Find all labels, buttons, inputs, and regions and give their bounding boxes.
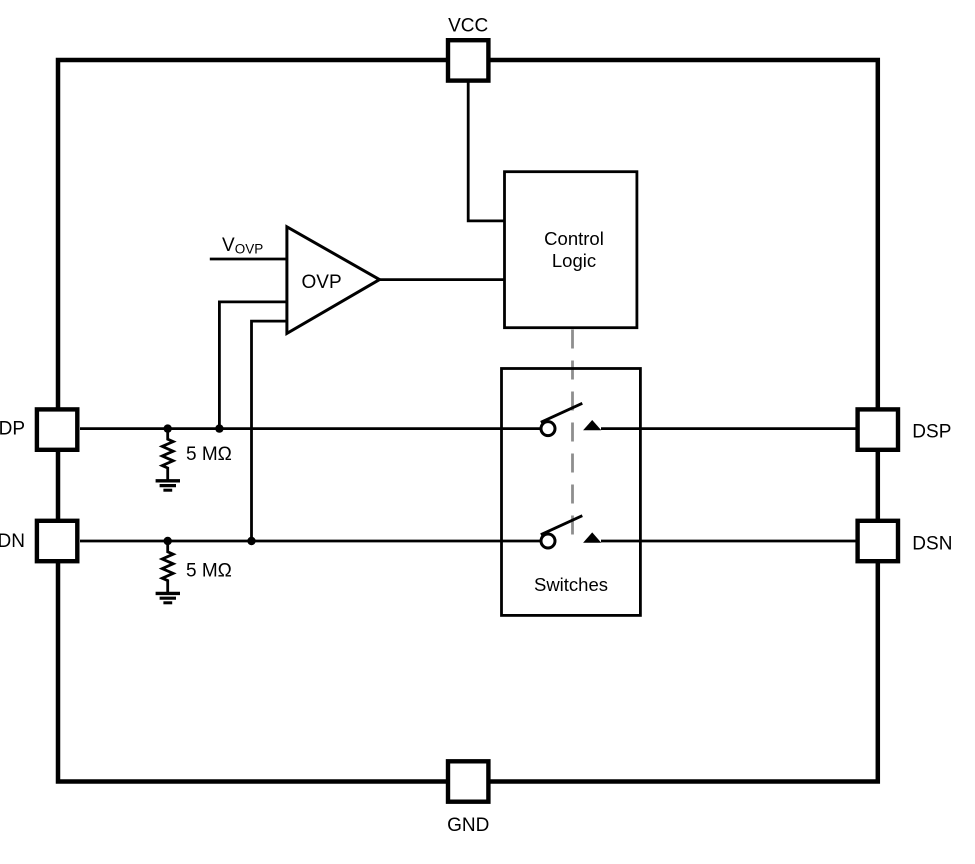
svg-text:DSP: DSP	[912, 422, 951, 443]
pin GND	[447, 761, 489, 836]
svg-text:DN: DN	[0, 531, 25, 552]
svg-text:VOVP: VOVP	[222, 235, 263, 257]
node A junction DP-R1	[164, 424, 172, 432]
svg-text:Logic: Logic	[552, 250, 596, 271]
wire VCC to Control Logic	[468, 82, 504, 221]
node C junction DN-R2	[164, 537, 172, 545]
wire DSP net	[601, 427, 858, 430]
chip outline	[58, 60, 878, 782]
node D junction DN-OVP	[247, 537, 255, 545]
svg-text:Control: Control	[544, 228, 604, 249]
svg-text:5 MΩ: 5 MΩ	[186, 444, 232, 465]
wire DP net	[80, 427, 540, 430]
svg-text:GND: GND	[447, 815, 489, 836]
switches block	[502, 369, 641, 616]
pin DP	[0, 409, 77, 449]
ground G1	[156, 481, 180, 490]
svg-text:Switches: Switches	[534, 574, 608, 595]
svg-text:OVP: OVP	[302, 272, 342, 293]
svg-text:DSN: DSN	[912, 534, 952, 555]
ground G2	[156, 593, 180, 602]
pin DSN	[858, 521, 953, 561]
svg-text:5 MΩ: 5 MΩ	[186, 561, 232, 582]
control logic block U2	[505, 172, 637, 328]
switch SW1	[541, 403, 602, 435]
pin DSP	[858, 409, 952, 449]
svg-text:VCC: VCC	[448, 16, 488, 37]
wire DN net	[80, 540, 540, 543]
resistor R1	[162, 429, 232, 481]
wire VOVP input	[210, 258, 287, 261]
switch SW2	[541, 516, 602, 548]
dashed control line	[571, 330, 574, 538]
node B junction DP-OVP	[215, 424, 223, 432]
pin DN	[0, 521, 77, 561]
wire DSN net	[601, 540, 858, 543]
op-amp U1 OVP comparator	[287, 227, 380, 334]
pin VCC	[448, 16, 488, 81]
resistor R2	[162, 541, 232, 593]
wire OVP output	[379, 278, 505, 281]
wire DN to OVP input	[252, 321, 287, 541]
wire DP to OVP input	[219, 302, 286, 429]
svg-text:DP: DP	[0, 419, 25, 440]
